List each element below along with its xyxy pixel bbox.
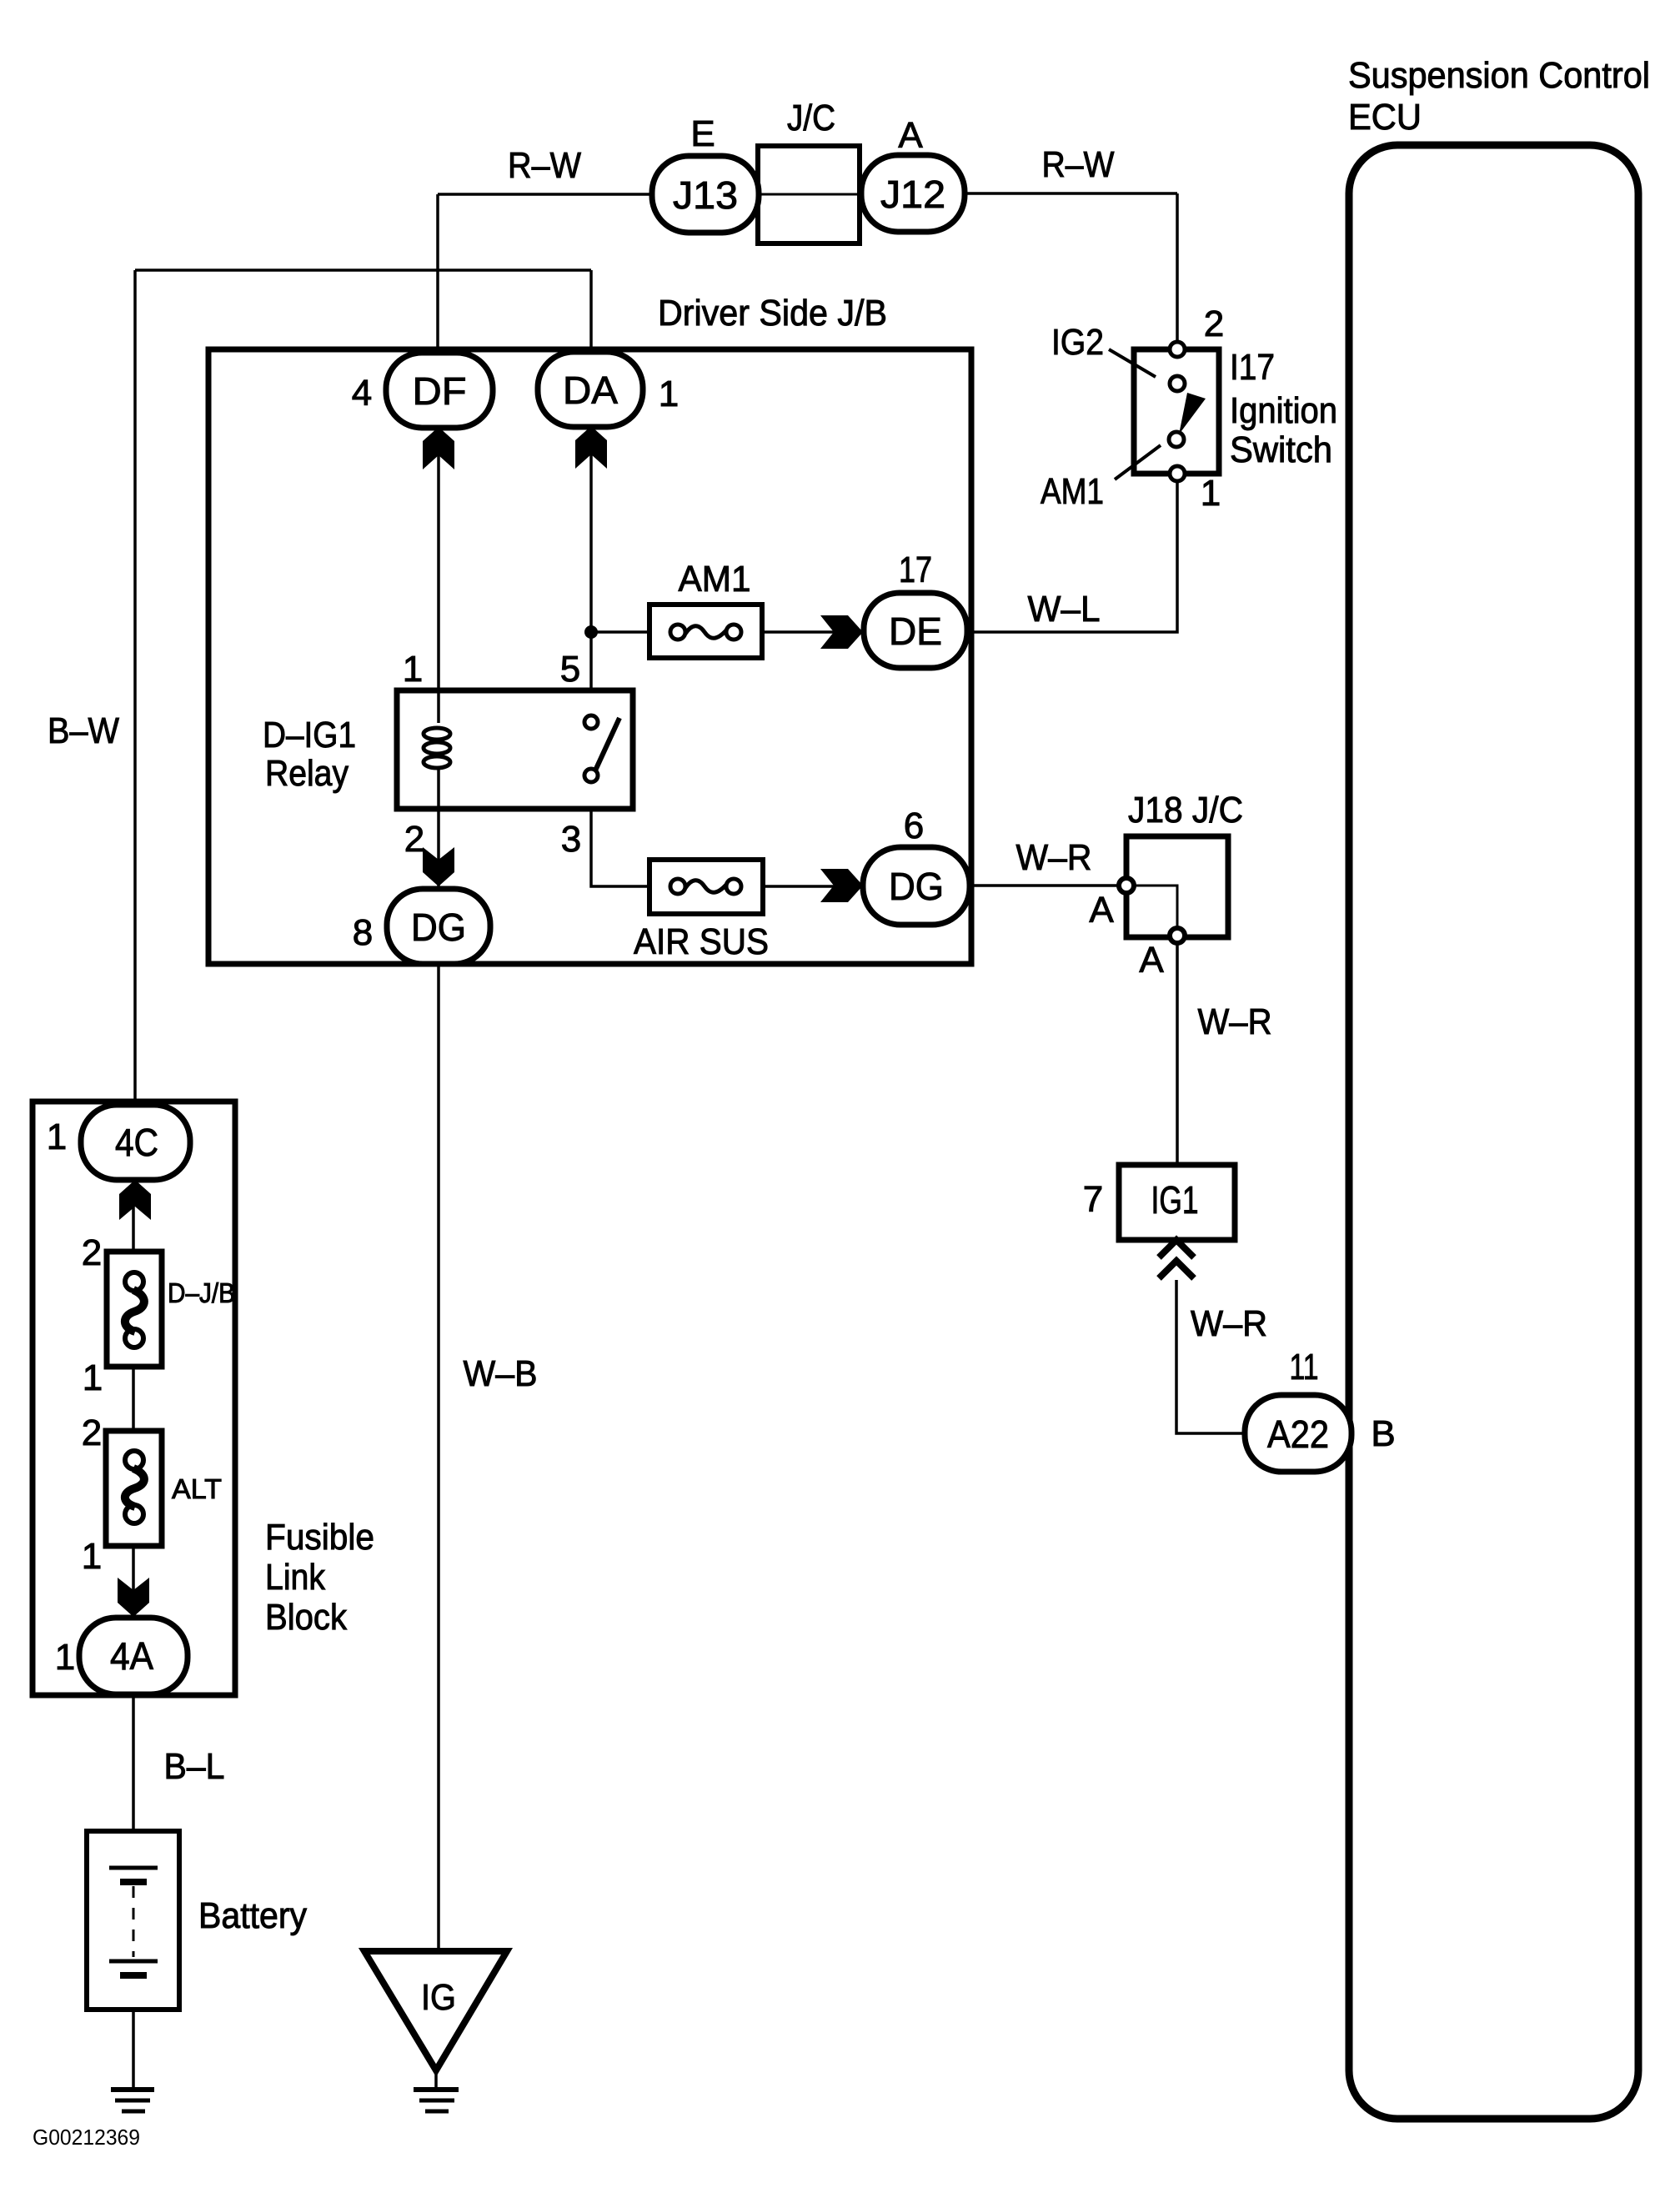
svg-text:DA: DA bbox=[563, 369, 618, 412]
svg-text:D–IG1: D–IG1 bbox=[263, 715, 356, 755]
svg-text:7: 7 bbox=[1083, 1179, 1103, 1220]
svg-text:AIR SUS: AIR SUS bbox=[634, 921, 769, 962]
svg-text:Ignition: Ignition bbox=[1230, 390, 1337, 431]
svg-text:W–R: W–R bbox=[1016, 837, 1092, 878]
svg-text:1: 1 bbox=[1201, 473, 1221, 514]
svg-text:J/C: J/C bbox=[787, 98, 835, 138]
svg-text:DG: DG bbox=[889, 865, 944, 908]
svg-text:DF: DF bbox=[413, 369, 467, 413]
svg-text:17: 17 bbox=[899, 549, 932, 590]
svg-text:AM1: AM1 bbox=[679, 559, 751, 600]
svg-text:5: 5 bbox=[560, 649, 580, 690]
svg-text:1: 1 bbox=[82, 1536, 102, 1577]
svg-text:A: A bbox=[898, 115, 923, 156]
svg-text:W–R: W–R bbox=[1191, 1303, 1267, 1344]
svg-text:1: 1 bbox=[55, 1637, 75, 1678]
svg-text:I17: I17 bbox=[1230, 347, 1275, 388]
svg-text:A: A bbox=[1139, 940, 1164, 981]
svg-text:IG: IG bbox=[421, 1977, 456, 2018]
svg-text:8: 8 bbox=[353, 912, 373, 953]
svg-text:11: 11 bbox=[1290, 1347, 1319, 1388]
svg-text:B–L: B–L bbox=[164, 1746, 225, 1787]
svg-text:J13: J13 bbox=[673, 173, 738, 217]
svg-text:1: 1 bbox=[47, 1117, 67, 1157]
svg-text:6: 6 bbox=[904, 805, 924, 846]
svg-text:B: B bbox=[1371, 1413, 1395, 1454]
svg-text:Block: Block bbox=[265, 1597, 348, 1638]
svg-text:Switch: Switch bbox=[1230, 429, 1332, 470]
svg-text:2: 2 bbox=[404, 819, 424, 860]
svg-text:AM1: AM1 bbox=[1041, 471, 1104, 512]
svg-text:E: E bbox=[690, 113, 715, 154]
svg-text:2: 2 bbox=[1204, 304, 1224, 344]
svg-text:W–B: W–B bbox=[464, 1353, 538, 1394]
svg-text:R–W: R–W bbox=[1042, 144, 1115, 185]
svg-text:4: 4 bbox=[352, 373, 372, 414]
svg-text:Link: Link bbox=[265, 1557, 326, 1598]
svg-text:2: 2 bbox=[82, 1232, 102, 1273]
svg-text:IG1: IG1 bbox=[1151, 1178, 1199, 1222]
svg-text:IG2: IG2 bbox=[1051, 322, 1104, 363]
svg-text:2: 2 bbox=[82, 1413, 102, 1453]
svg-text:R–W: R–W bbox=[508, 145, 581, 186]
svg-text:1: 1 bbox=[659, 374, 679, 414]
svg-text:ALT: ALT bbox=[172, 1473, 222, 1504]
svg-text:G00212369: G00212369 bbox=[33, 2125, 140, 2150]
svg-text:A22: A22 bbox=[1267, 1413, 1329, 1456]
svg-text:1: 1 bbox=[403, 649, 423, 690]
svg-text:A: A bbox=[1089, 890, 1114, 931]
svg-text:DG: DG bbox=[411, 906, 466, 949]
svg-text:B–W: B–W bbox=[48, 710, 119, 751]
svg-text:3: 3 bbox=[561, 819, 581, 860]
svg-text:Battery: Battery bbox=[198, 1895, 307, 1936]
svg-text:Driver Side J/B: Driver Side J/B bbox=[658, 293, 887, 334]
svg-text:J12: J12 bbox=[880, 173, 945, 216]
svg-text:ECU: ECU bbox=[1348, 97, 1422, 138]
svg-text:D–J/B: D–J/B bbox=[168, 1277, 235, 1308]
svg-text:1: 1 bbox=[83, 1357, 103, 1398]
svg-text:Suspension Control: Suspension Control bbox=[1348, 55, 1650, 96]
svg-text:DE: DE bbox=[889, 610, 942, 653]
svg-text:Fusible: Fusible bbox=[265, 1517, 374, 1558]
svg-text:W–L: W–L bbox=[1028, 589, 1101, 630]
svg-text:4A: 4A bbox=[110, 1634, 153, 1678]
svg-text:J18 J/C: J18 J/C bbox=[1128, 790, 1243, 831]
svg-text:Relay: Relay bbox=[265, 753, 349, 794]
svg-text:W–R: W–R bbox=[1198, 1001, 1272, 1042]
svg-text:4C: 4C bbox=[115, 1121, 158, 1164]
